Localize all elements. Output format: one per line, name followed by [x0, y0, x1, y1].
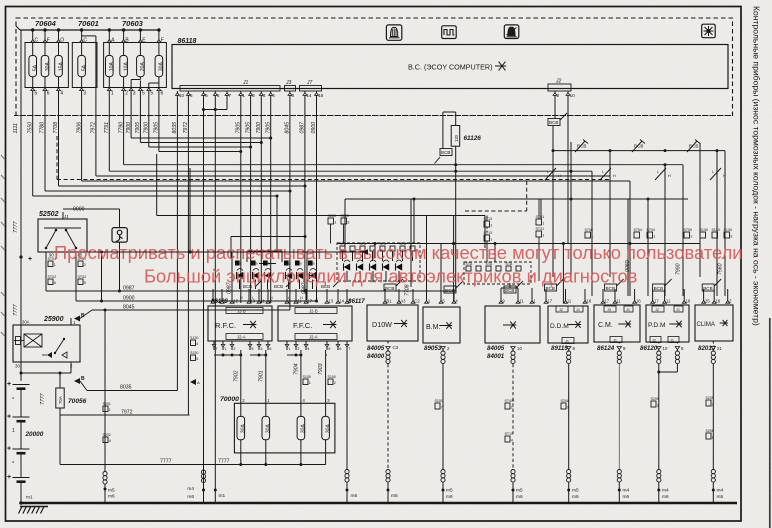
- wire 7905 J1-2: [250, 97, 252, 303]
- switch BCB above 84005: [504, 286, 516, 293]
- svg-text:61126: 61126: [464, 135, 482, 142]
- svg-text:14: 14: [339, 299, 344, 304]
- svg-text:Большой энциклопедии для автоэ: Большой энциклопедии для автоэлектриков …: [144, 266, 637, 287]
- svg-text:J3: J3: [285, 80, 292, 86]
- node line mid 190: [189, 168, 191, 252]
- svg-text:11: 11: [666, 299, 671, 304]
- fusebox 70603: [104, 43, 167, 88]
- svg-text:B: B: [81, 313, 85, 319]
- svg-text:J1: J1: [63, 214, 68, 219]
- svg-text:J2-A: J2-A: [309, 335, 318, 340]
- svg-text:7: 7: [229, 93, 232, 98]
- svg-text:30A: 30A: [45, 62, 51, 72]
- svg-text:1: 1: [54, 263, 56, 267]
- fuse 10A: [120, 56, 128, 77]
- svg-text:J2: J2: [555, 79, 562, 85]
- svg-text:m6: m6: [351, 493, 358, 499]
- wire 7972 horizontal: [59, 408, 61, 415]
- svg-text:5: 5: [150, 90, 153, 96]
- svg-text:L: L: [657, 170, 659, 174]
- wire 84005 ground dashed: [512, 350, 514, 352]
- svg-text:BCB: BCB: [505, 288, 514, 293]
- wire 0987 from J7: [304, 97, 306, 291]
- svg-text:9: 9: [567, 406, 569, 410]
- svg-text:3: 3: [730, 235, 732, 239]
- link line 199: [345, 198, 688, 200]
- svg-text:84001: 84001: [487, 353, 505, 360]
- svg-text:m4: m4: [717, 488, 724, 494]
- svg-text:11: 11: [260, 299, 265, 304]
- fusebox 70603 internal taps: [108, 77, 110, 97]
- wire 7972 tap over fuse C: [95, 36, 97, 97]
- pin 10 of 84005 module: [511, 347, 516, 350]
- svg-text:25900: 25900: [43, 316, 64, 323]
- svg-text:16: 16: [686, 299, 691, 304]
- wire CLIMA ground: [712, 364, 714, 469]
- connector J3 of B.C.: [285, 86, 296, 92]
- fuse 30A d: [322, 416, 330, 439]
- node line mid 156: [156, 154, 158, 216]
- svg-text:7903: 7903: [318, 363, 324, 375]
- svg-text:H: H: [613, 174, 616, 178]
- svg-text:6: 6: [161, 90, 164, 96]
- svg-text:13: 13: [328, 299, 333, 304]
- dashed drop line: [526, 181, 528, 211]
- svg-text:m4: m4: [187, 486, 194, 492]
- svg-text:7777: 7777: [13, 303, 19, 316]
- svg-text:L: L: [316, 296, 318, 300]
- icon fan (clima): [702, 24, 716, 38]
- svg-text:8045: 8045: [123, 305, 135, 311]
- wire branch from node line: [101, 252, 103, 301]
- connector J7 of B.C.: [300, 86, 322, 92]
- wire 1111 battery positive rail: [20, 30, 22, 381]
- svg-text:5: 5: [190, 93, 193, 98]
- svg-text:4: 4: [109, 439, 111, 443]
- wire col 700: [699, 143, 701, 277]
- svg-text:70A: 70A: [58, 396, 63, 404]
- wire 7708 mid branch: [410, 199, 412, 287]
- svg-text:30A: 30A: [159, 62, 165, 72]
- wire col 414: [413, 199, 415, 244]
- wire ground m1 run: [214, 110, 216, 504]
- sensor 61126: [442, 112, 444, 149]
- svg-text:m5: m5: [108, 488, 115, 494]
- resistor 70056: [59, 373, 61, 388]
- arrow B to 8035: [74, 378, 80, 384]
- svg-text:C2: C2: [414, 299, 420, 304]
- svg-text:7777: 7777: [40, 392, 46, 405]
- B.C. pin row: [176, 91, 178, 97]
- svg-text:m5: m5: [516, 488, 523, 494]
- wire 7790 long run: [123, 97, 125, 165]
- svg-text:3: 3: [133, 90, 136, 96]
- wire 7905 J1-4: [270, 97, 272, 303]
- wire 7777 rail: [60, 464, 326, 466]
- pin 21 of CLIMA: [711, 347, 716, 350]
- svg-text:86124: 86124: [597, 345, 615, 352]
- link line 150.6: [553, 150, 725, 152]
- svg-text:m5: m5: [717, 494, 724, 500]
- wire 8035 vertical: [176, 97, 178, 391]
- svg-text:m6: m6: [662, 494, 669, 500]
- svg-text:17: 17: [307, 299, 312, 304]
- wire BCB down: [552, 126, 554, 278]
- pin C3 of D10W: [386, 347, 391, 350]
- svg-text:BCB: BCB: [445, 288, 454, 293]
- module F.F.C.: [278, 306, 352, 341]
- svg-text:BCB: BCB: [703, 286, 712, 291]
- wire to 7777 rail: [59, 415, 61, 465]
- coil + dashed ground wire D10W m5: [387, 350, 389, 352]
- svg-text:8: 8: [712, 436, 714, 440]
- svg-text:B: B: [81, 376, 85, 382]
- fuse 5A: [78, 56, 86, 77]
- icon buzzer (square wave): [442, 26, 457, 39]
- wire 7708 long run: [58, 97, 60, 186]
- fuse 5A: [29, 56, 37, 77]
- wire col 453: [453, 216, 455, 304]
- module D10W: [367, 305, 418, 341]
- wire 7780 long run: [44, 97, 46, 191]
- svg-text:J2: J2: [559, 308, 563, 312]
- node line y252 overdraw: [87, 251, 362, 253]
- svg-text:7777: 7777: [218, 459, 230, 465]
- svg-text:5: 5: [205, 93, 208, 98]
- svg-text:20000: 20000: [25, 431, 44, 438]
- wire 7900 J1-3: [260, 97, 262, 303]
- wire col 610 lower: [609, 151, 611, 176]
- wire D.D.M. ground: [568, 364, 570, 469]
- wire 0987 branch b: [306, 252, 308, 300]
- wire 7905 J1-1: [240, 97, 242, 303]
- wire 7972 to resistor rail: [187, 97, 189, 415]
- pin 8 of P.D.M.: [675, 347, 680, 350]
- svg-text:1: 1: [490, 224, 492, 228]
- switch BCB under 61126: [440, 149, 452, 156]
- wire 0987 branch a: [231, 252, 233, 300]
- svg-text:J1: J1: [676, 308, 680, 312]
- svg-text:J1: J1: [626, 308, 630, 312]
- wire col 725: [724, 151, 726, 296]
- connector J1 of B.C.: [180, 86, 280, 92]
- svg-text:14: 14: [307, 93, 313, 98]
- op module B.C. ECU COMPUTER: [172, 45, 728, 89]
- P.D.M. ground merge: [676, 364, 678, 372]
- svg-text:7: 7: [441, 406, 443, 410]
- svg-text:18: 18: [318, 93, 324, 98]
- svg-text:30A: 30A: [325, 424, 331, 434]
- svg-text:m5: m5: [446, 488, 453, 494]
- svg-text:6: 6: [47, 90, 50, 96]
- pin 2 of B.M.: [441, 347, 446, 350]
- svg-text:10: 10: [663, 346, 668, 351]
- svg-text:7990: 7990: [676, 263, 682, 275]
- svg-text:89119: 89119: [551, 345, 568, 352]
- relay 52502: [38, 219, 87, 252]
- dashed crossing line: [14, 115, 733, 117]
- svg-text:1: 1: [334, 221, 336, 225]
- pin 9 of C.M.: [617, 347, 622, 350]
- module R.F.C.: [208, 306, 272, 341]
- arrow B to 8045: [70, 318, 72, 325]
- wire col 563: [562, 244, 564, 304]
- dashed inner partition: [57, 179, 610, 181]
- switch BCB above B.M.: [444, 286, 456, 293]
- svg-text:0000: 0000: [73, 207, 85, 213]
- svg-text:4: 4: [196, 342, 198, 346]
- svg-text:19: 19: [716, 299, 721, 304]
- svg-text:J1: J1: [565, 340, 569, 344]
- svg-text:30A: 30A: [22, 320, 30, 325]
- wire 7901: [250, 354, 266, 356]
- cluster wires over D10W: [342, 251, 344, 261]
- wire from J2-10: [567, 97, 569, 244]
- svg-text:3: 3: [263, 93, 266, 98]
- svg-text:J1: J1: [670, 339, 674, 343]
- svg-text:m6: m6: [187, 494, 194, 500]
- svg-text:17: 17: [654, 299, 659, 304]
- svg-text:0900: 0900: [123, 296, 135, 302]
- svg-text:B1: B1: [386, 299, 392, 304]
- svg-text:m6: m6: [108, 494, 115, 500]
- svg-text:10: 10: [517, 346, 522, 351]
- wire 7550 long run: [32, 97, 34, 196]
- svg-text:1: 1: [309, 381, 311, 385]
- wire from 61126: [455, 146, 457, 291]
- svg-text:12: 12: [233, 299, 238, 304]
- wire 7903: [326, 354, 327, 356]
- svg-text:A3: A3: [400, 299, 406, 304]
- svg-text:10: 10: [570, 93, 576, 98]
- wire 8035 horizontal: [87, 390, 177, 392]
- ignition key icon: [112, 228, 127, 243]
- svg-text:1: 1: [111, 90, 114, 96]
- fusebox 70601: [72, 43, 97, 88]
- pin 8 of D.D.M.: [566, 347, 571, 350]
- svg-text:2: 2: [252, 93, 255, 98]
- svg-text:17: 17: [604, 299, 609, 304]
- fuse wires inside 70000: [240, 403, 242, 416]
- svg-text:J2: J2: [655, 308, 659, 312]
- svg-text:P.D.M: P.D.M: [648, 322, 665, 329]
- svg-text:52502: 52502: [39, 211, 59, 218]
- svg-text:18: 18: [586, 299, 591, 304]
- svg-text:m6: m6: [446, 494, 453, 500]
- relay 25900: [13, 325, 80, 362]
- wire C.M. ground: [618, 364, 620, 469]
- module D.D.M.: [548, 306, 588, 343]
- svg-text:m4: m4: [662, 488, 669, 494]
- svg-text:J1: J1: [613, 339, 617, 343]
- svg-text:5: 5: [142, 90, 145, 96]
- svg-text:J1: J1: [576, 308, 580, 312]
- svg-text:L: L: [712, 170, 714, 174]
- svg-text:1: 1: [12, 428, 15, 434]
- svg-text:C3: C3: [393, 345, 399, 350]
- svg-text:16: 16: [636, 299, 641, 304]
- module P.D.M.: [646, 305, 689, 342]
- svg-text:30: 30: [15, 364, 20, 369]
- legend star symbol: [495, 65, 506, 67]
- svg-text:70601: 70601: [78, 19, 99, 28]
- wire col 345: [344, 199, 346, 248]
- svg-text:BCB: BCB: [546, 286, 555, 291]
- svg-text:BCB: BCB: [441, 150, 450, 155]
- scan page right edge line: [769, 318, 771, 528]
- wire 7904: [287, 354, 301, 356]
- svg-text:8: 8: [292, 93, 295, 98]
- wire col 717: [716, 151, 718, 296]
- svg-text:5A: 5A: [81, 64, 87, 71]
- svg-text:10A: 10A: [123, 62, 129, 72]
- svg-text:6: 6: [217, 93, 220, 98]
- wire 0000: [63, 208, 120, 210]
- svg-text:F.F.C.: F.F.C.: [293, 321, 312, 330]
- svg-text:4: 4: [511, 439, 513, 443]
- module CLIMA: [695, 305, 733, 341]
- wire B.M. ground m5: [442, 350, 444, 352]
- diode matrix over D10W: [337, 243, 420, 281]
- svg-text:m4: m4: [623, 488, 630, 494]
- svg-text:J2-B: J2-B: [237, 309, 246, 314]
- svg-text:BCB: BCB: [549, 120, 558, 125]
- wire 7972 long run: [95, 97, 97, 176]
- svg-text:J1: J1: [242, 80, 249, 86]
- svg-text:7777: 7777: [160, 459, 172, 465]
- svg-text:7777: 7777: [13, 220, 19, 233]
- wire m4 bottom: [201, 470, 205, 474]
- svg-text:4: 4: [272, 93, 275, 98]
- svg-text:84005: 84005: [487, 345, 505, 352]
- svg-text:m6: m6: [572, 494, 579, 500]
- svg-text:6: 6: [54, 281, 56, 285]
- svg-text:m5: m5: [572, 488, 579, 494]
- wire col 495: [494, 244, 496, 263]
- supply bus wire (top): [20, 29, 159, 31]
- relay output to resistor: [70, 362, 72, 373]
- svg-text:8035: 8035: [120, 385, 132, 391]
- svg-text:10: 10: [179, 93, 185, 98]
- svg-text:5: 5: [196, 357, 198, 361]
- wire 7791 long run: [108, 97, 110, 171]
- svg-text:BCB: BCB: [654, 286, 663, 291]
- svg-text:21: 21: [717, 346, 722, 351]
- diode matrix over R.F.C. F.F.C.: [231, 236, 305, 238]
- wire 8045 from J3: [289, 97, 291, 310]
- svg-text:O: O: [60, 38, 64, 44]
- fan drop wires into cluster A: [276, 196, 278, 251]
- svg-text:BCB: BCB: [385, 286, 394, 291]
- arrow mark A: [190, 379, 196, 385]
- svg-text:84000: 84000: [367, 353, 385, 360]
- svg-text:10A: 10A: [109, 62, 115, 72]
- svg-text:1: 1: [542, 222, 544, 226]
- connector J2 of B.C.: [548, 84, 571, 91]
- svg-text:70000: 70000: [220, 396, 239, 403]
- svg-text:m1: m1: [26, 495, 33, 501]
- svg-text:5A: 5A: [33, 64, 39, 71]
- svg-text:30A: 30A: [266, 424, 272, 434]
- watermark line 2: [144, 266, 637, 287]
- svg-text:89053: 89053: [424, 345, 442, 352]
- module top pin stub wires: [384, 291, 386, 296]
- module C.M.: [594, 305, 640, 342]
- svg-text:3: 3: [657, 404, 659, 408]
- svg-text:B.M.: B.M.: [426, 324, 440, 331]
- wire ground m4 run: [203, 110, 205, 504]
- svg-text:m6: m6: [516, 494, 523, 500]
- svg-text:1: 1: [490, 238, 492, 242]
- wire col 426: [426, 216, 428, 304]
- F.F.C. bottom pins: [286, 341, 288, 350]
- fuse 10A: [106, 56, 114, 77]
- svg-text:2: 2: [712, 403, 714, 407]
- svg-text:2: 2: [334, 381, 336, 385]
- svg-text:1: 1: [591, 235, 593, 239]
- svg-text:86120: 86120: [640, 345, 658, 352]
- svg-text:11: 11: [567, 299, 572, 304]
- module top pins: [211, 301, 215, 304]
- switch row 2 levers: [545, 168, 556, 180]
- ground bus: [20, 502, 737, 505]
- svg-text:+: +: [7, 381, 11, 388]
- wire m1 bottom: [214, 489, 217, 492]
- svg-text:D10W: D10W: [372, 320, 392, 329]
- svg-text:J2-B: J2-B: [309, 309, 318, 314]
- svg-text:0987: 0987: [123, 286, 135, 292]
- svg-text:D.D.M: D.D.M: [550, 323, 569, 330]
- svg-text:4: 4: [60, 90, 63, 96]
- svg-text:+: +: [28, 256, 32, 263]
- svg-text:25: 25: [705, 299, 710, 304]
- svg-text:2: 2: [125, 90, 128, 96]
- svg-text:m5: m5: [391, 493, 398, 499]
- svg-text:1: 1: [242, 93, 245, 98]
- sensor group ST-A: [464, 262, 531, 284]
- wire F.F.C. pin7 ground m6: [346, 350, 348, 469]
- svg-text:84005: 84005: [367, 345, 385, 352]
- fusebox 70604: [25, 43, 68, 88]
- svg-text:30A: 30A: [241, 424, 247, 434]
- wire 7906 long run: [81, 97, 83, 181]
- svg-text:13: 13: [250, 299, 255, 304]
- svg-text:A: A: [197, 380, 200, 385]
- wire m5 column: [104, 310, 106, 471]
- svg-text:11: 11: [519, 299, 524, 304]
- fuse 30A a: [237, 416, 245, 439]
- svg-text:B.C. (ЭCOY COMPUTER): B.C. (ЭCOY COMPUTER): [408, 63, 493, 72]
- svg-text:1111: 1111: [13, 123, 19, 133]
- svg-text:C: C: [35, 38, 39, 44]
- svg-text:17: 17: [547, 299, 552, 304]
- svg-text:30A: 30A: [301, 424, 307, 434]
- svg-text:7972: 7972: [121, 410, 133, 416]
- svg-text:2: 2: [84, 263, 86, 267]
- fusebox 70000: [234, 403, 335, 453]
- wire from key icon: [119, 242, 121, 291]
- svg-text:11: 11: [297, 299, 302, 304]
- svg-text:2: 2: [511, 406, 513, 410]
- svg-text:m1: m1: [219, 493, 226, 499]
- svg-text:20A: 20A: [140, 62, 146, 72]
- dashed enclosure box (top): [16, 18, 733, 116]
- wire col 485: [484, 216, 486, 249]
- svg-text:L: L: [547, 170, 549, 174]
- svg-text:70604: 70604: [35, 19, 57, 28]
- svg-text:7901: 7901: [259, 370, 265, 382]
- wire 0900 horizontal: [76, 300, 317, 302]
